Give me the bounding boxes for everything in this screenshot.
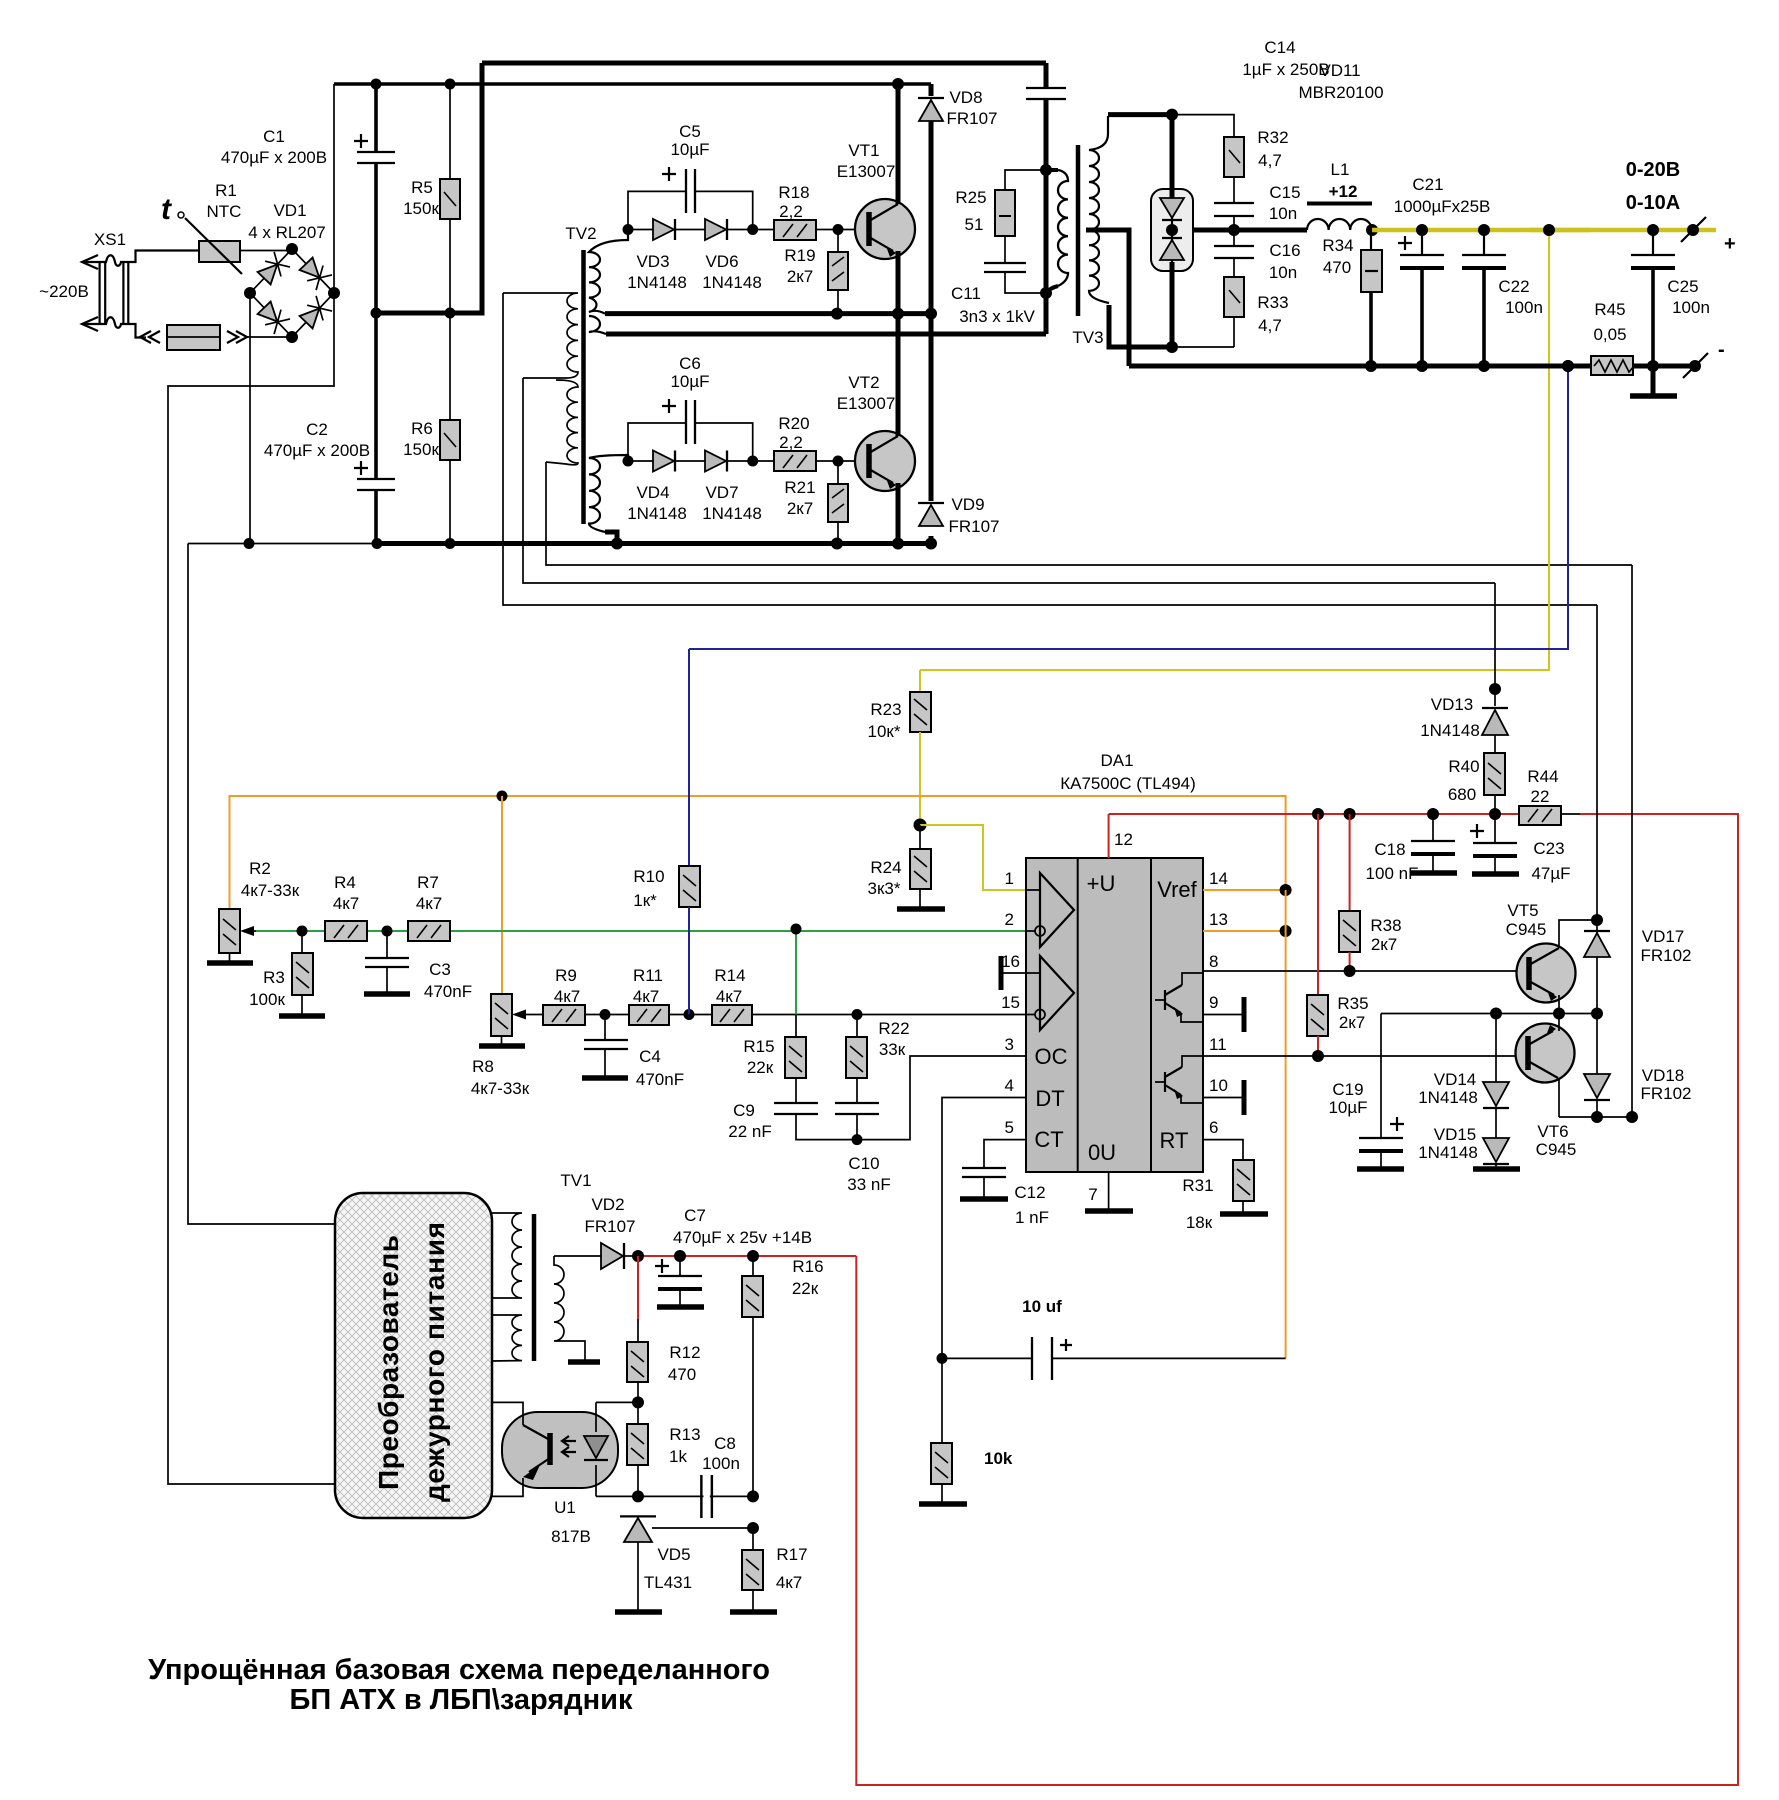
- transformer TV2 winding lower-left: [546, 380, 578, 465]
- capacitor C19 10uF: [1328, 1014, 1404, 1170]
- node C4 junction: [600, 1009, 611, 1020]
- svg-text:R3: R3: [263, 968, 285, 987]
- svg-text:47µF: 47µF: [1531, 864, 1570, 883]
- svg-text:C9: C9: [733, 1101, 755, 1120]
- node R22 top: [852, 1009, 863, 1020]
- svg-text:Преобразователь: Преобразователь: [373, 1235, 404, 1490]
- svg-text:КА7500С (TL494): КА7500С (TL494): [1060, 774, 1196, 793]
- svg-text:3: 3: [1005, 1035, 1014, 1054]
- svg-text:R10: R10: [633, 867, 664, 886]
- wire error amp green: [256, 930, 1026, 932]
- svg-text:10µF: 10µF: [670, 372, 709, 391]
- svg-text:C21: C21: [1412, 175, 1443, 194]
- ground TV1 secondary: [568, 1359, 600, 1365]
- svg-text:C7: C7: [684, 1206, 706, 1225]
- svg-text:VD14: VD14: [1434, 1070, 1477, 1089]
- svg-text:R40: R40: [1448, 757, 1479, 776]
- svg-text:5: 5: [1005, 1118, 1014, 1137]
- resistor R16 22k: [742, 1256, 824, 1496]
- capacitor C15 10n: [1214, 183, 1301, 230]
- svg-text:4к7-33к: 4к7-33к: [471, 1079, 530, 1098]
- node C14 / TV3 primary top: [1040, 164, 1052, 176]
- wire bottom primary rail y=543.5 thin part: [188, 543, 377, 545]
- wire minus rail overpaint: [1535, 364, 1591, 369]
- shunt regulator VD5 TL431: [615, 1516, 753, 1612]
- svg-text:16: 16: [1001, 952, 1020, 971]
- node orange R8 branch: [497, 791, 508, 802]
- svg-text:C19: C19: [1332, 1080, 1363, 1099]
- svg-text:R4: R4: [334, 873, 356, 892]
- capacitor C18 100nF: [1366, 814, 1457, 883]
- svg-text:1N4148: 1N4148: [627, 504, 687, 523]
- svg-text:E13007: E13007: [837, 394, 896, 413]
- potentiometer R8 4k7-33k: [471, 994, 543, 1098]
- resistor R10 1k* on blue wire: [633, 649, 700, 1015]
- svg-text:C16: C16: [1269, 241, 1300, 260]
- svg-text:C22: C22: [1498, 277, 1529, 296]
- resistor R13 1k: [627, 1402, 701, 1496]
- resistor R40 680: [1448, 753, 1505, 814]
- svg-text:C23: C23: [1533, 839, 1564, 858]
- svg-text:R44: R44: [1527, 767, 1558, 786]
- transformer TV2 winding mid-right: [589, 316, 606, 334]
- svg-text:10µF: 10µF: [1328, 1098, 1367, 1117]
- transformer TV3 primary winding: [1046, 170, 1068, 293]
- transformer TV3 core: [1072, 145, 1103, 347]
- wire Vref orange long: [230, 796, 1286, 909]
- svg-text:DA1: DA1: [1100, 751, 1133, 770]
- svg-text:100к: 100к: [249, 990, 285, 1009]
- svg-text:1000µFx25В: 1000µFx25В: [1394, 197, 1491, 216]
- wire current sense navy: [689, 366, 1568, 649]
- wire C1C2 midpoint rail y=312: [376, 311, 482, 315]
- IC DA1 KA7500C TL494: [1026, 751, 1203, 1172]
- svg-text:22к: 22к: [792, 1279, 819, 1298]
- svg-text:R38: R38: [1370, 916, 1401, 935]
- wire bottom primary rail y=543.5 thick part: [375, 541, 931, 546]
- svg-text:100n: 100n: [702, 1454, 740, 1473]
- svg-text:6: 6: [1209, 1118, 1218, 1137]
- pin 5 wire CT: [984, 1118, 1026, 1168]
- svg-text:8: 8: [1209, 952, 1218, 971]
- wire orange Vref drop to soft start: [1285, 890, 1287, 1358]
- svg-text:R9: R9: [555, 966, 577, 985]
- bridge rectifier VD1 4xRL207: [244, 201, 340, 343]
- pin 6 wire RT: [1203, 1118, 1243, 1160]
- svg-text:R45: R45: [1594, 300, 1625, 319]
- svg-text:+: +: [1724, 233, 1736, 255]
- svg-text:1µF x 250В: 1µF x 250В: [1242, 60, 1329, 79]
- wire VT6 emitter to VD18 bottom: [1559, 1116, 1632, 1118]
- svg-text:C945: C945: [1536, 1140, 1577, 1159]
- diode VD17 FR102: [1584, 920, 1692, 1014]
- node pin8 R38: [1344, 965, 1356, 977]
- svg-text:2к7: 2к7: [787, 499, 813, 518]
- svg-text:470µF x 200В: 470µF x 200В: [264, 441, 370, 460]
- svg-text:470: 470: [668, 1365, 696, 1384]
- resistor R32 4,7: [1224, 128, 1289, 203]
- svg-text:C5: C5: [679, 122, 701, 141]
- svg-text:C10: C10: [848, 1154, 879, 1173]
- svg-text:R33: R33: [1257, 293, 1288, 312]
- capacitor C4 470nF: [582, 1015, 684, 1090]
- transistor VT6 C945: [1516, 1014, 1577, 1160]
- wire TL431 node: [596, 1495, 753, 1497]
- capacitor C6 10uF: [628, 354, 753, 461]
- svg-text:TV1: TV1: [560, 1171, 591, 1190]
- svg-text:100 nF: 100 nF: [1366, 864, 1419, 883]
- svg-text:VD13: VD13: [1431, 695, 1474, 714]
- svg-text:11: 11: [1209, 1035, 1227, 1054]
- svg-text:VD8: VD8: [949, 88, 982, 107]
- svg-text:C3: C3: [429, 960, 451, 979]
- fuse FU: [140, 325, 292, 350]
- resistor R22 33k: [846, 1015, 910, 1104]
- wire TV2 lower-right winding to rail: [605, 532, 617, 544]
- resistor R31 18k: [1182, 1160, 1268, 1232]
- node VD6 cathode / C5: [747, 224, 758, 235]
- resistor R24 3k3*: [868, 825, 945, 909]
- svg-text:NTC: NTC: [207, 202, 242, 221]
- node rail y=84 junctions: [371, 79, 382, 90]
- svg-text:Упрощённая базовая схема перед: Упрощённая базовая схема переделанного: [148, 1654, 770, 1686]
- resistor R34 470: [1322, 230, 1382, 366]
- wire voltage sense yellow: [920, 230, 1549, 670]
- capacitor 10uf soft start: [942, 1297, 1286, 1380]
- pin 14 orange Vref: [1203, 869, 1292, 896]
- svg-text:1N4148: 1N4148: [1420, 721, 1480, 740]
- node C22 top: [1478, 224, 1490, 236]
- transformer TV1 secondary winding: [554, 1256, 585, 1361]
- svg-text:R16: R16: [792, 1257, 823, 1276]
- wire TV3 secondary bottom lead: [1109, 305, 1172, 347]
- svg-text:22к: 22к: [747, 1058, 774, 1077]
- svg-text:VD18: VD18: [1642, 1066, 1685, 1085]
- wire VD11 top to R32: [1172, 115, 1234, 137]
- node R3 R4: [297, 926, 308, 937]
- svg-text:4к7-33к: 4к7-33к: [241, 881, 300, 900]
- svg-text:R35: R35: [1337, 994, 1368, 1013]
- svg-text:470µF x 200В: 470µF x 200В: [221, 148, 327, 167]
- svg-text:470nF: 470nF: [424, 982, 472, 1001]
- svg-text:FR107: FR107: [584, 1217, 635, 1236]
- capacitor C16 10n: [1214, 230, 1301, 282]
- svg-text:3к3*: 3к3*: [868, 879, 901, 898]
- svg-text:R31: R31: [1182, 1176, 1213, 1195]
- wire vertical bus x=482: [378, 63, 482, 313]
- svg-text:E13007: E13007: [837, 162, 896, 181]
- capacitor C12 1nF: [960, 1168, 1049, 1227]
- svg-text:FR102: FR102: [1640, 946, 1691, 965]
- wire TV2 primary feed 1 x=503 to y=605: [503, 293, 1597, 605]
- inductor L1 +12: [1307, 160, 1372, 230]
- node R23 R24 divider: [914, 819, 927, 832]
- svg-text:1N4148: 1N4148: [702, 504, 762, 523]
- resistor R6 150k: [403, 313, 460, 544]
- resistor R14 4k7: [712, 966, 1026, 1025]
- dual diode VD11 MBR20100: [1151, 61, 1384, 353]
- transformer TV2 winding upper-left: [503, 293, 578, 378]
- svg-text:1N4148: 1N4148: [1418, 1088, 1478, 1107]
- resistor R38 2k7: [1339, 814, 1402, 971]
- svg-text:12: 12: [1114, 830, 1133, 849]
- transistor VT2 E13007: [837, 373, 915, 491]
- capacitor C21 1000uFx25B: [1394, 175, 1491, 366]
- svg-text:дежурного питания: дежурного питания: [419, 1222, 450, 1502]
- svg-text:L1: L1: [1331, 160, 1350, 179]
- svg-text:100n: 100n: [1672, 298, 1710, 317]
- svg-text:15: 15: [1001, 993, 1020, 1012]
- svg-text:R14: R14: [714, 966, 745, 985]
- node C15 C16 center: [1228, 224, 1240, 236]
- node VD3 anode: [623, 224, 634, 235]
- wire output plus bus yellow: [1372, 228, 1716, 233]
- svg-text:51: 51: [965, 215, 984, 234]
- transformer TV1 core: [532, 1214, 537, 1361]
- svg-text:10к*: 10к*: [868, 722, 901, 741]
- wire bridge minus drop x=250: [249, 293, 251, 544]
- diode VD2 FR107: [554, 1195, 638, 1269]
- resistor R12 470: [627, 1256, 701, 1402]
- svg-text:7: 7: [1088, 1185, 1097, 1204]
- svg-text:DT: DT: [1035, 1086, 1064, 1111]
- thermistor R1 NTC: [161, 181, 242, 274]
- capacitor C9 22nF: [728, 1101, 857, 1141]
- wire VT2 collector-emitter bus x=898: [896, 314, 901, 544]
- svg-text:R8: R8: [472, 1057, 494, 1076]
- resistor R5 150k: [403, 84, 460, 313]
- resistor R20 2,2: [774, 414, 856, 471]
- svg-text:1N4148: 1N4148: [627, 273, 687, 292]
- svg-text:150к: 150к: [403, 199, 439, 218]
- svg-text:C4: C4: [639, 1047, 661, 1066]
- wire red to right border loop: [856, 814, 1738, 1785]
- node rail y=543 junctions: [244, 538, 255, 549]
- svg-text:R25: R25: [955, 188, 986, 207]
- diode VD15 1N4148: [1418, 1108, 1520, 1169]
- svg-text:33к: 33к: [879, 1040, 906, 1059]
- wire +14V red rail: [1109, 813, 1519, 815]
- wire TV3 center tap to minus rail: [1086, 230, 1129, 366]
- svg-text:470nF: 470nF: [636, 1070, 684, 1089]
- svg-text:VD17: VD17: [1642, 927, 1685, 946]
- wire top +310V bus y=63: [482, 61, 1046, 66]
- transistor internal top: [1165, 985, 1182, 1013]
- svg-text:R2: R2: [249, 859, 271, 878]
- wire pin1 yellow: [920, 825, 1026, 890]
- node TV3 primary bottom / C11 / rail B: [1040, 287, 1052, 299]
- node C21 top: [1416, 224, 1428, 236]
- capacitor C8 100n: [701, 1434, 740, 1518]
- svg-text:10µF: 10µF: [670, 140, 709, 159]
- resistor R33 4,7: [1224, 277, 1289, 347]
- svg-text:R34: R34: [1322, 236, 1353, 255]
- svg-text:R1: R1: [215, 181, 237, 200]
- svg-text:~220В: ~220В: [39, 282, 89, 301]
- svg-text:817В: 817В: [551, 1527, 591, 1546]
- wire TV3 secondary top to VD11 top: [1108, 112, 1172, 117]
- svg-text:10n: 10n: [1269, 204, 1297, 223]
- node C25 top: [1647, 224, 1659, 236]
- svg-text:470: 470: [1323, 258, 1351, 277]
- transistor VT5 C945: [1506, 901, 1597, 1014]
- svg-text:10k: 10k: [984, 1449, 1013, 1468]
- node VT1 base / R19: [833, 224, 844, 235]
- svg-text:4к7: 4к7: [776, 1573, 802, 1592]
- transformer TV2 core: [565, 224, 596, 524]
- capacitor C25 100n: [1631, 230, 1710, 366]
- svg-text:2к7: 2к7: [1339, 1013, 1365, 1032]
- capacitor C2 470uF x 200B: [264, 313, 395, 544]
- pin 10 stub: [1203, 1076, 1244, 1115]
- svg-text:10 uf: 10 uf: [1022, 1297, 1062, 1316]
- svg-text:CT: CT: [1034, 1127, 1063, 1152]
- svg-text:33 nF: 33 nF: [847, 1175, 890, 1194]
- pin 12 red +U: [1109, 814, 1133, 858]
- svg-text:470µF x 25v: 470µF x 25v: [673, 1228, 767, 1247]
- svg-text:TV2: TV2: [565, 224, 596, 243]
- diode VD3 1N4148: [627, 219, 687, 292]
- svg-text:БП АТХ в ЛБП\зарядник: БП АТХ в ЛБП\зарядник: [289, 1684, 633, 1716]
- diode VD9 FR107: [918, 314, 1000, 544]
- svg-text:14: 14: [1209, 869, 1228, 888]
- svg-text:4к7: 4к7: [716, 987, 742, 1006]
- capacitor C22 100n: [1462, 230, 1543, 366]
- rail B TV2 to TV3 y=334: [606, 332, 1046, 337]
- svg-text:VD11: VD11: [1319, 61, 1360, 80]
- svg-text:VD3: VD3: [636, 252, 669, 271]
- svg-text:MBR20100: MBR20100: [1298, 83, 1383, 102]
- svg-text:4к7: 4к7: [333, 894, 359, 913]
- wire rail B riser to C14 node: [1044, 170, 1049, 334]
- svg-text:9: 9: [1209, 993, 1218, 1012]
- node pin11 R35: [1312, 1050, 1324, 1062]
- op-amp comparator 2: [1040, 956, 1074, 1030]
- resistor R17 4k7: [730, 1522, 808, 1612]
- diode VD8 FR107: [918, 84, 998, 320]
- transistor internal bottom: [1165, 1067, 1182, 1095]
- diode VD4 1N4148: [627, 451, 687, 524]
- terminal output plus: [1626, 159, 1736, 255]
- potentiometer R2 4k7-33k: [207, 859, 300, 963]
- svg-text:22: 22: [1531, 787, 1550, 806]
- resistor R4 4k7: [325, 873, 367, 941]
- connector XS1: [82, 230, 292, 338]
- pin 13 orange: [1203, 910, 1292, 937]
- svg-text:VT6: VT6: [1537, 1122, 1568, 1141]
- node sense tap: [1543, 224, 1555, 236]
- svg-text:VD4: VD4: [636, 483, 669, 502]
- svg-text:VD9: VD9: [951, 495, 984, 514]
- wire TV2 primary feed 3 x=546 to y=565: [546, 462, 1632, 565]
- resistor R11 4k7: [605, 966, 712, 1025]
- wire pin3 feedback: [857, 1056, 1026, 1140]
- svg-text:C8: C8: [714, 1434, 736, 1453]
- resistor R35 2k7: [1307, 814, 1369, 1056]
- svg-text:4,7: 4,7: [1258, 151, 1282, 170]
- wire bridge+ rail y=84: [334, 82, 931, 86]
- svg-text:R18: R18: [778, 183, 809, 202]
- svg-text:2к7: 2к7: [787, 267, 813, 286]
- svg-text:150к: 150к: [403, 440, 439, 459]
- ground output minus: [1651, 366, 1656, 395]
- svg-text:4к7: 4к7: [633, 987, 659, 1006]
- svg-text:FR107: FR107: [948, 517, 999, 536]
- svg-text:C6: C6: [679, 354, 701, 373]
- svg-text:10n: 10n: [1269, 263, 1297, 282]
- svg-text:FR102: FR102: [1640, 1084, 1691, 1103]
- svg-text:VT5: VT5: [1507, 901, 1538, 920]
- node rail y=312 junctions: [371, 308, 382, 319]
- node L1 output: [1366, 224, 1378, 236]
- svg-text:1N4148: 1N4148: [702, 273, 762, 292]
- node DT soft-start junction: [937, 1353, 948, 1364]
- wire TV2 primary feed 2 x=523 to y=583: [523, 378, 1495, 583]
- wire VD11 center to L1: [1193, 228, 1307, 233]
- svg-text:R17: R17: [776, 1545, 807, 1564]
- svg-text:680: 680: [1448, 785, 1476, 804]
- svg-text:1N4148: 1N4148: [1418, 1143, 1478, 1162]
- wire bridge plus riser x=334: [168, 84, 336, 1484]
- svg-text:R19: R19: [784, 246, 815, 265]
- svg-text:VD2: VD2: [591, 1195, 624, 1214]
- svg-text:C15: C15: [1269, 183, 1300, 202]
- capacitor C14 1uF x 250B: [1026, 38, 1330, 170]
- svg-text:VD1: VD1: [273, 201, 306, 220]
- capacitor C11 3n3 x 1kV: [951, 263, 1046, 326]
- wire LED anode: [596, 1401, 638, 1403]
- svg-text:C1: C1: [263, 127, 285, 146]
- svg-text:1 nF: 1 nF: [1015, 1208, 1049, 1227]
- capacitor C10 33nF: [835, 1103, 891, 1194]
- svg-text:10: 10: [1209, 1076, 1228, 1095]
- standby converter box TV1: [335, 1193, 492, 1518]
- wire +14V red feed: [638, 1255, 856, 1257]
- svg-text:C14: C14: [1264, 38, 1295, 57]
- op-amp comparator 1: [1040, 873, 1074, 947]
- transistor VT1 E13007: [837, 141, 915, 259]
- svg-text:R13: R13: [669, 1425, 700, 1444]
- svg-text:+12: +12: [1329, 182, 1358, 201]
- resistor R7 4k7: [408, 873, 450, 941]
- capacitor C23 47uF: [1470, 814, 1571, 883]
- svg-text:R7: R7: [417, 873, 439, 892]
- wire pin 8 to VT5 base: [1203, 970, 1527, 972]
- svg-text:-: -: [1718, 339, 1725, 361]
- svg-text:R24: R24: [870, 858, 901, 877]
- svg-text:RT: RT: [1160, 1128, 1189, 1153]
- svg-text:0U: 0U: [1088, 1140, 1116, 1165]
- svg-text:1к*: 1к*: [633, 891, 657, 910]
- svg-text:OC: OC: [1035, 1044, 1068, 1069]
- wire pin 11 to VT6 base: [1203, 1055, 1526, 1057]
- svg-text:R22: R22: [878, 1019, 909, 1038]
- resistor R44 22: [1519, 767, 1580, 825]
- svg-text:2,2: 2,2: [779, 202, 803, 221]
- capacitor C1 470uF x 200B: [221, 84, 395, 313]
- capacitor C3 470nF: [364, 931, 472, 1001]
- svg-text:4: 4: [1005, 1076, 1014, 1095]
- svg-text:4,7: 4,7: [1258, 316, 1282, 335]
- svg-text:R11: R11: [633, 966, 663, 985]
- svg-text:2к7: 2к7: [1371, 935, 1397, 954]
- resistor R21 2k7: [784, 461, 848, 544]
- svg-text:VT1: VT1: [848, 141, 879, 160]
- wire green feedback drop: [795, 929, 797, 1015]
- svg-text:C18: C18: [1374, 840, 1405, 859]
- svg-text:R12: R12: [669, 1343, 700, 1362]
- svg-text:Vref: Vref: [1157, 877, 1197, 902]
